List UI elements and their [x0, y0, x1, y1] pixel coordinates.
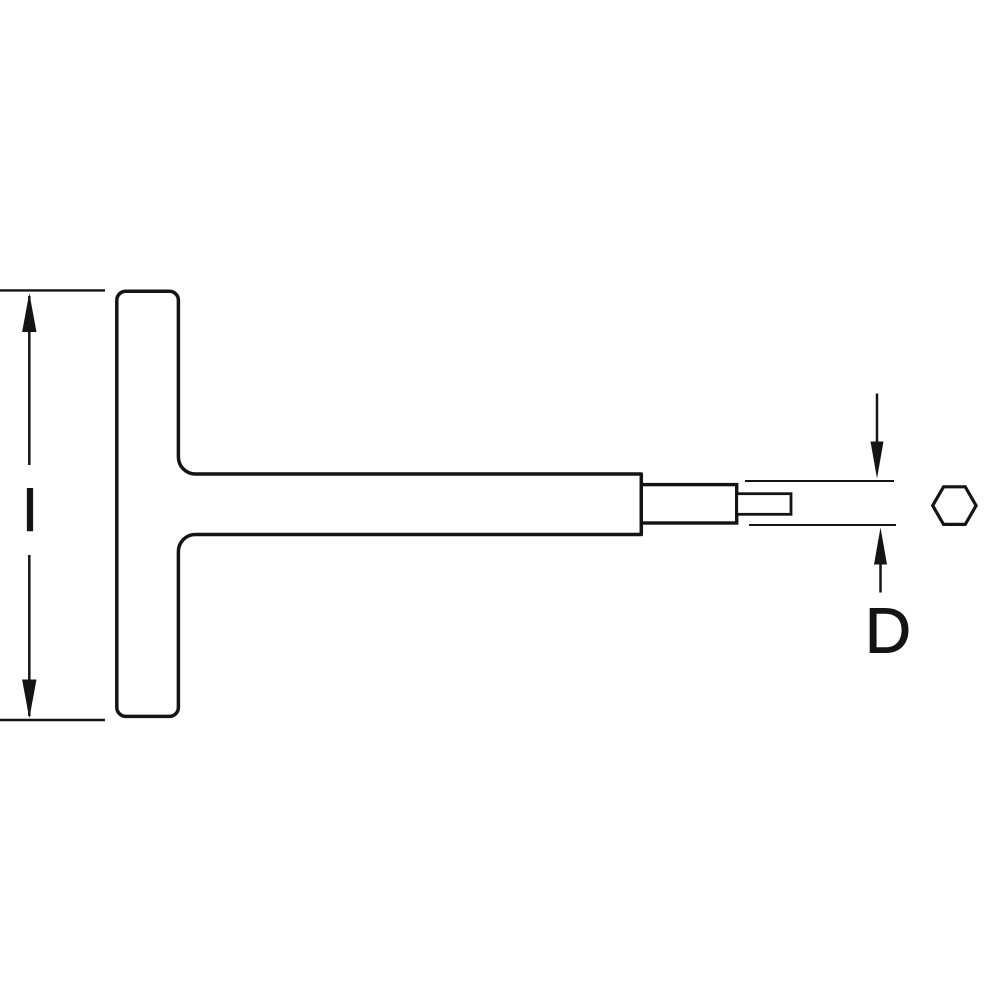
I dimension upper line [28, 296, 31, 465]
left bottom extension line [0, 719, 105, 721]
shaft tip [737, 494, 791, 515]
shaft middle section [641, 485, 736, 523]
svg-text:D: D [865, 595, 911, 667]
hexagon cross-section symbol [933, 487, 976, 525]
D bottom extension line [749, 524, 896, 526]
I dimension lower line [28, 555, 31, 716]
D bottom arrowhead [874, 528, 887, 565]
I dimension lower arrowhead [22, 680, 36, 719]
D top extension line [745, 480, 894, 482]
D top arrowhead [871, 442, 884, 479]
D top arrow line [876, 394, 879, 451]
D bottom arrow line [879, 560, 882, 593]
left top extension line [0, 289, 105, 291]
svg-text:I: I [21, 476, 38, 545]
tool body: T-handle with shaft [117, 291, 642, 716]
I dimension upper arrowhead [22, 293, 36, 332]
